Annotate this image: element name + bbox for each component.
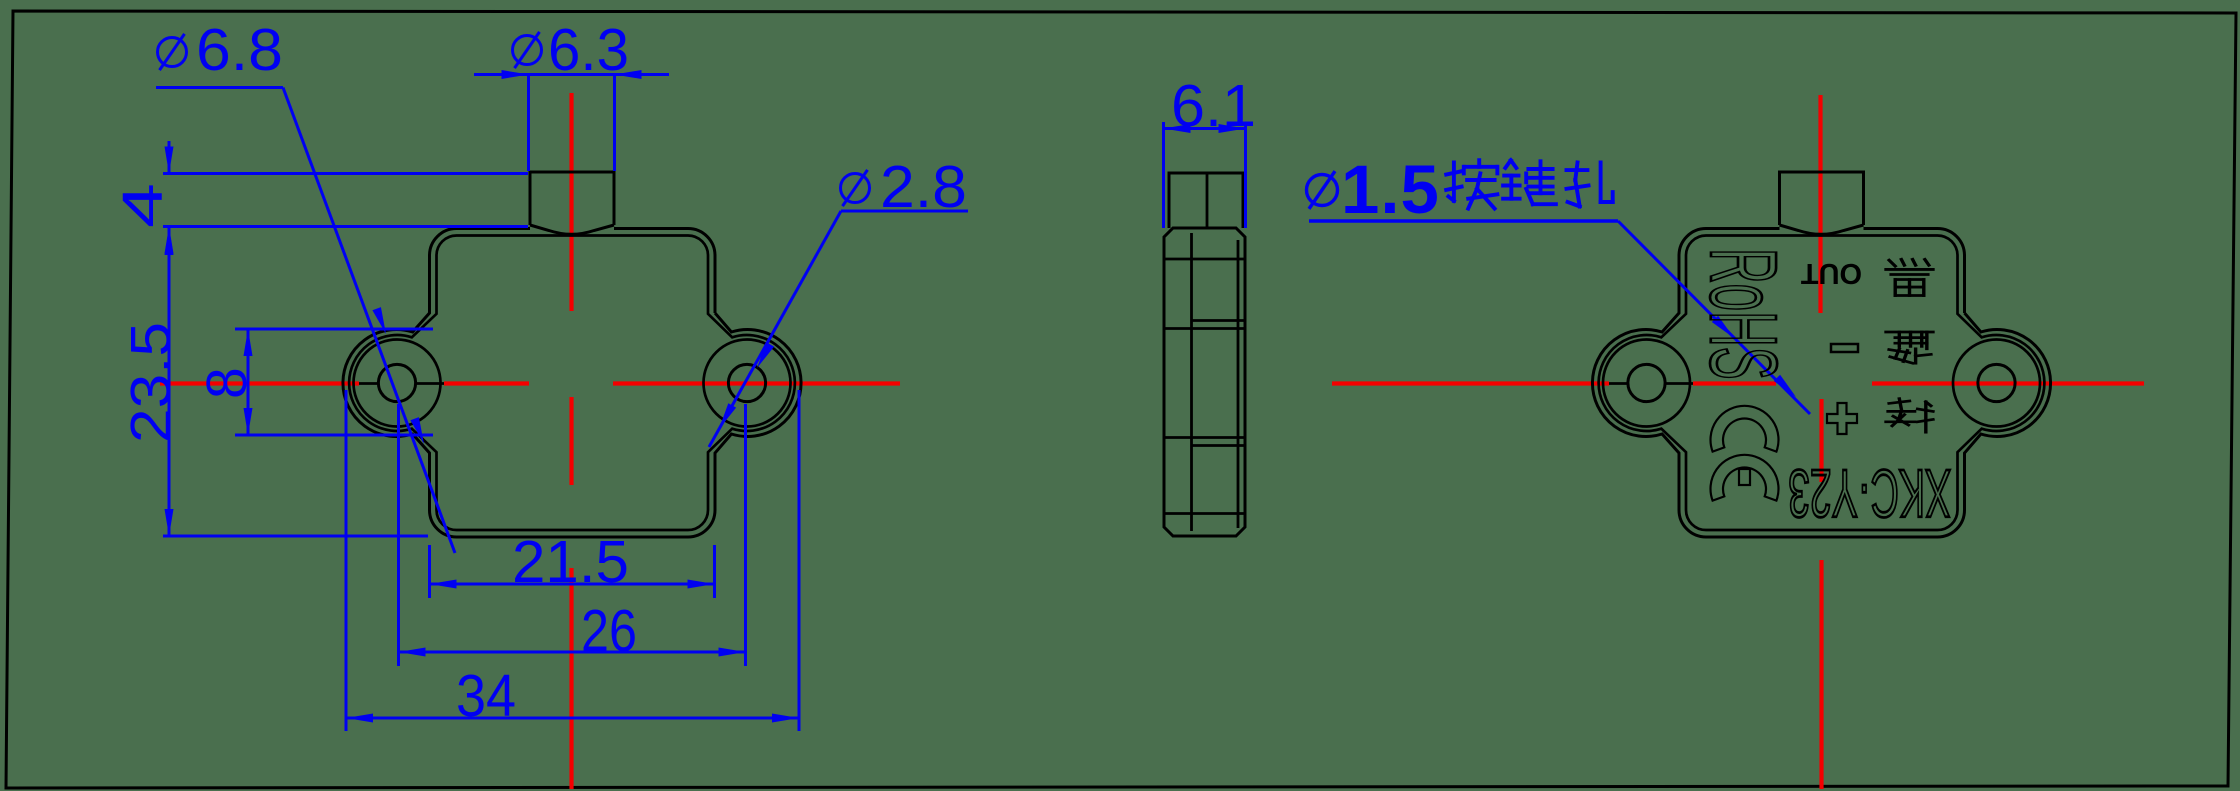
back view body — [1592, 172, 2050, 537]
svg-text:26: 26 — [581, 598, 637, 664]
side view tab — [1169, 173, 1243, 228]
label leader — [1618, 221, 1810, 414]
dim 8 — [235, 328, 433, 331]
svg-text:23.5: 23.5 — [119, 322, 183, 443]
back view left ear centerline black segments — [1609, 382, 1628, 385]
dim dia6.8 leader — [283, 88, 455, 554]
back view chinese column — [1886, 259, 1933, 295]
dim 6.1 — [1162, 122, 1165, 228]
dim dia2.8 leader — [709, 211, 841, 447]
svg-text:34: 34 — [456, 663, 516, 729]
dim dia6.3 — [513, 36, 542, 65]
side view internal lines — [1190, 233, 1193, 531]
svg-text:RoHS: RoHS — [1690, 248, 1797, 380]
svg-text:XKC·Y23: XKC·Y23 — [1788, 455, 1951, 532]
red centerlines back view — [1332, 381, 1609, 385]
front view body — [343, 172, 801, 537]
dim 34 — [345, 390, 348, 731]
back view plus — [1827, 403, 1857, 434]
dim dia2.8 label — [841, 174, 870, 203]
dim 21.5 — [428, 545, 431, 598]
svg-text:21.5: 21.5 — [512, 529, 629, 595]
svg-text:8: 8 — [195, 367, 259, 399]
svg-text:6.1: 6.1 — [1171, 73, 1256, 139]
dim dia6.8 label — [158, 38, 187, 67]
svg-text:4: 4 — [111, 183, 175, 228]
dim 23.5 — [168, 228, 171, 536]
side view body — [1164, 228, 1245, 536]
svg-text:OUT: OUT — [1801, 257, 1863, 289]
label dia1.5 button-hole — [1307, 175, 1338, 206]
svg-text:1.5: 1.5 — [1341, 151, 1440, 228]
back view minus — [1831, 344, 1858, 352]
red centerlines front view — [160, 381, 359, 385]
dim 4 — [163, 172, 528, 175]
dim 26 — [397, 404, 400, 666]
svg-text:6.8: 6.8 — [196, 17, 283, 83]
front view left ear centerline black segments — [359, 382, 378, 385]
back view CE logo — [1711, 406, 1779, 452]
